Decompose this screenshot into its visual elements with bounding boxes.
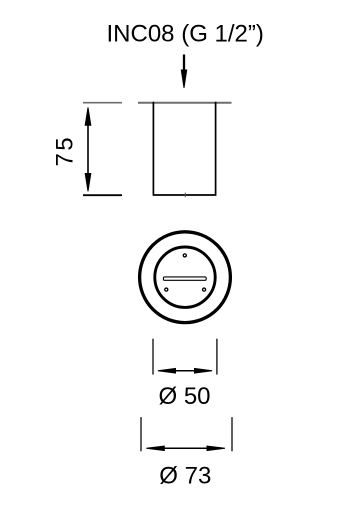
svg-text:75: 75 xyxy=(52,135,79,167)
svg-text:Ø 73: Ø 73 xyxy=(159,462,211,489)
svg-text:Ø 50: Ø 50 xyxy=(158,383,210,410)
svg-text:INC08 (G 1/2”): INC08 (G 1/2”) xyxy=(107,21,264,48)
